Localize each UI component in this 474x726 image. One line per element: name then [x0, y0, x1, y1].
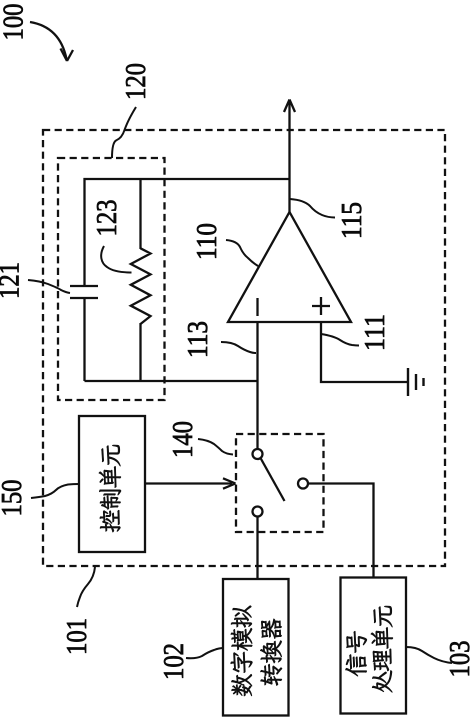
leader 121: [28, 280, 70, 293]
DAC box 102: [223, 579, 289, 716]
wire inverting input 113: [256, 322, 258, 449]
svg-text:113: 113: [182, 321, 214, 358]
leader 101: [77, 567, 95, 607]
wire output 115: [288, 102, 290, 212]
svg-text:111: 111: [359, 314, 391, 351]
svg-text:123: 123: [91, 200, 123, 237]
svg-text:115: 115: [336, 202, 368, 239]
capacitor 121: [70, 286, 98, 298]
leader 102: [186, 648, 224, 658]
leader 123: [101, 246, 131, 273]
svg-text:120: 120: [120, 63, 152, 100]
op-amp 110: [228, 212, 351, 322]
svg-text:101: 101: [61, 618, 93, 655]
leader 103: [406, 647, 452, 663]
leader 110: [226, 240, 258, 266]
leader 115: [290, 199, 335, 218]
leader 150: [31, 484, 79, 498]
svg-text:140: 140: [167, 421, 199, 458]
arrow from label 100: [30, 22, 67, 59]
text signal 信号: [345, 654, 366, 676]
resistor 123: [139, 179, 141, 249]
wire switch right to signal unit: [308, 484, 374, 579]
switch blade: [261, 458, 285, 501]
svg-text:103: 103: [444, 641, 474, 678]
text signal 处理单元: [372, 670, 392, 692]
leader 113: [221, 342, 256, 353]
text control unit 控制单元: [100, 510, 121, 532]
control unit box 150: [79, 416, 145, 552]
outer dashed box 101: [43, 130, 445, 566]
svg-text:102: 102: [158, 643, 190, 680]
switch contact top: [253, 449, 263, 459]
leader 140: [198, 439, 233, 455]
wire switch bottom to DAC: [256, 517, 258, 580]
text DAC 数字模拟: [231, 674, 252, 696]
wire feedback top: [85, 179, 290, 286]
op-amp plus input marker: [312, 297, 330, 315]
wire feedback bottom: [85, 380, 258, 382]
wire control to switch with arrowhead: [145, 482, 232, 484]
ground: [408, 368, 424, 396]
wire capacitor bottom: [83, 298, 85, 381]
arrowhead output: [284, 100, 295, 113]
switch dashed box 140: [236, 434, 324, 532]
wire non-inverting input 111: [321, 322, 408, 382]
switch contact bottom: [253, 507, 263, 517]
op-amp minus input marker: [256, 298, 258, 316]
switch contact right: [298, 479, 308, 489]
inner dashed box 120: [58, 158, 165, 400]
leader 120: [112, 107, 136, 158]
svg-text:100: 100: [0, 4, 30, 41]
svg-text:121: 121: [0, 262, 26, 299]
signal processing unit box 103: [341, 578, 407, 714]
leader 111: [321, 334, 359, 346]
svg-text:110: 110: [191, 223, 223, 260]
text DAC 转换器: [260, 664, 282, 685]
svg-text:150: 150: [0, 480, 28, 517]
